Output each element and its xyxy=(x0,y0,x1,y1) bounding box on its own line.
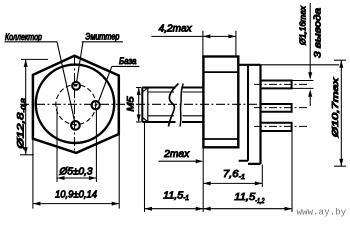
horizontal centerline (front view) xyxy=(20,103,131,105)
dimension 7,6-1 xyxy=(203,182,262,184)
leader 2max xyxy=(159,160,202,162)
lead 2 (middle) xyxy=(261,104,292,112)
svg-text:База: База xyxy=(119,56,137,66)
dimension Ø12,8-0,8 xyxy=(20,59,48,154)
pin circle Ø5 (dashed) xyxy=(56,85,96,125)
svg-text:4,2max: 4,2max xyxy=(159,24,193,35)
leader Эмиттер xyxy=(77,42,83,82)
flange circle Ø12,8 xyxy=(36,65,114,143)
stud chamfer xyxy=(147,88,149,123)
svg-text:Коллектор: Коллектор xyxy=(5,32,42,42)
dimension M5 xyxy=(136,88,141,123)
lead 1 (top) xyxy=(261,81,292,89)
hex flange (front view) xyxy=(33,56,119,153)
lead 3 (bottom) xyxy=(261,123,292,131)
svg-text:11,5-1: 11,5-1 xyxy=(163,191,189,203)
dimension 10,9±0,14 xyxy=(33,135,119,209)
vertical centerline (front view) xyxy=(74,57,76,151)
dimension Ø1,16max leader xyxy=(309,3,311,106)
svg-text:Ø1,16max: Ø1,16max xyxy=(299,5,308,46)
extension lines bottom dims xyxy=(145,122,293,212)
emitter pin (top) xyxy=(72,82,80,90)
leader База xyxy=(98,66,112,102)
dimension 4,2max xyxy=(151,31,236,57)
thread root lines xyxy=(148,92,204,116)
svg-text:3 вывода: 3 вывода xyxy=(313,8,323,58)
side view axis centerline xyxy=(136,103,258,105)
dimension 11,5-1 xyxy=(145,208,204,210)
label Коллектор xyxy=(5,32,58,42)
base pin (right) xyxy=(92,101,100,109)
cap body xyxy=(238,65,260,164)
svg-text:11,5-1,2: 11,5-1,2 xyxy=(234,192,264,205)
lead diameter extension lines xyxy=(292,81,314,89)
dimension Ø5±0,3 xyxy=(57,107,96,183)
collector pin (bottom) xyxy=(71,121,80,130)
svg-text:7,6-1: 7,6-1 xyxy=(223,169,245,181)
lead centerlines xyxy=(254,83,309,85)
svg-text:www.ay.by: www.ay.by xyxy=(297,207,347,218)
label База xyxy=(112,56,140,66)
hex facet lines xyxy=(203,72,238,139)
dimension Ø10,7max xyxy=(334,60,346,166)
svg-text:Эмиттер: Эмиттер xyxy=(85,32,119,42)
threaded stud M5 outline xyxy=(142,88,203,123)
hex body (side view) xyxy=(203,57,238,148)
svg-text:10,9±0,14: 10,9±0,14 xyxy=(55,189,97,200)
svg-text:2max: 2max xyxy=(163,149,190,160)
flange disc (side view) xyxy=(239,65,248,161)
dimension 11,5-1,2 xyxy=(203,208,292,210)
break (обрыв) curves xyxy=(169,84,179,127)
svg-text:Ø10,7max: Ø10,7max xyxy=(330,77,340,139)
label Эмиттер xyxy=(82,32,123,42)
leader Коллектор xyxy=(57,42,75,122)
cap top extension line xyxy=(261,64,340,66)
svg-text:Ø5±0,3: Ø5±0,3 xyxy=(58,167,92,178)
svg-text:М5: М5 xyxy=(125,95,135,111)
